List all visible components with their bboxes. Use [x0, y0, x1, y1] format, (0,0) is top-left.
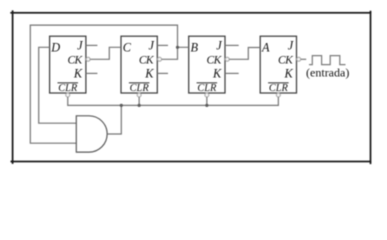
svg-text:CLR: CLR: [197, 83, 217, 94]
CK inversion bubble (FF D): [86, 57, 90, 61]
svg-text:CK: CK: [139, 55, 155, 67]
junction node AND output on CLR rail: [120, 104, 123, 107]
junction node CLR B on rail: [205, 104, 208, 107]
svg-text:J: J: [149, 39, 155, 53]
label CLR with overline (FF D): [58, 83, 79, 94]
label CLR with overline (FF A): [268, 83, 289, 94]
wire Q of C to CK of D: [90, 47, 121, 59]
AND gate: [76, 116, 107, 152]
wire Q of D down to AND gate upper input: [39, 47, 77, 123]
svg-text:J: J: [288, 39, 294, 53]
wire CLR drop (FF C): [138, 97, 140, 105]
flip-flop C box: [121, 36, 157, 93]
wire CLR drop (FF B): [206, 97, 208, 105]
label CLR with overline (FF B): [197, 83, 218, 94]
svg-text:K: K: [283, 66, 293, 80]
wire K stub (FF B): [225, 72, 239, 74]
svg-text:C: C: [123, 40, 132, 54]
border frame: [10, 10, 370, 164]
label CLR with overline (FF C): [129, 83, 150, 94]
svg-text:CK: CK: [278, 55, 294, 67]
wire J stub (FF B): [225, 44, 239, 46]
svg-text:D: D: [50, 40, 60, 54]
svg-text:K: K: [212, 66, 222, 80]
wire common CLR rail: [68, 97, 279, 105]
clock input square wave: [309, 56, 346, 65]
wire J stub (FF C): [157, 44, 168, 46]
wire Q of A to CK of B: [229, 48, 260, 60]
wire Q of B to CK of C: [162, 47, 189, 59]
wire node B up over top rail down to AND gate lower input: [30, 25, 177, 143]
CLR inversion bubble (FF A): [276, 93, 280, 97]
svg-text:CK: CK: [67, 55, 83, 67]
wire K stub (FF D): [86, 72, 98, 74]
wire J stub (FF D): [86, 44, 98, 46]
svg-text:B: B: [191, 40, 199, 54]
svg-text:CK: CK: [207, 55, 223, 67]
svg-text:CLR: CLR: [269, 83, 289, 94]
CK inversion bubble (FF B): [225, 57, 229, 61]
svg-text:J: J: [77, 39, 83, 53]
svg-text:J: J: [216, 39, 222, 53]
svg-text:(entrada): (entrada): [306, 65, 349, 79]
svg-text:K: K: [73, 66, 83, 80]
wire AND gate output up to CLR rail: [107, 105, 121, 134]
CLR inversion bubble (FF B): [205, 93, 209, 97]
CLR inversion bubble (FF C): [137, 93, 141, 97]
wire K stub (FF C): [157, 72, 168, 74]
CK inversion bubble (FF A): [297, 57, 301, 61]
svg-text:K: K: [144, 66, 154, 80]
svg-text:CLR: CLR: [130, 83, 150, 94]
svg-text:A: A: [261, 40, 270, 54]
CK inversion bubble (FF C): [158, 57, 162, 61]
flip-flop B box: [189, 36, 225, 93]
svg-text:CLR: CLR: [58, 83, 78, 94]
CLR inversion bubble (FF D): [66, 93, 70, 97]
wire CK of A to clock source: [301, 58, 306, 60]
flip-flop A box: [260, 36, 296, 93]
junction node CLR C on rail: [138, 104, 141, 107]
flip-flop D box: [50, 36, 86, 93]
junction node at B output: [176, 46, 179, 49]
